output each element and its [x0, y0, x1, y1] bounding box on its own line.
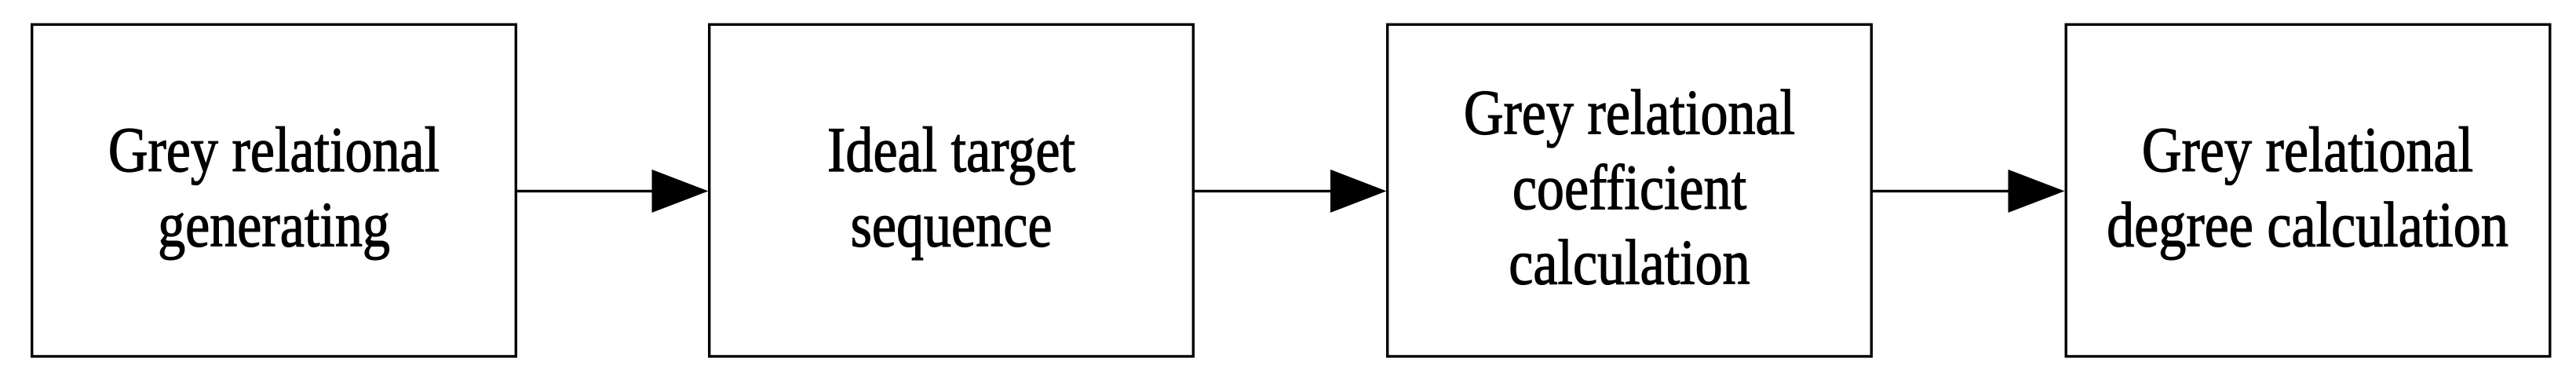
svg-text:calculation: calculation — [1509, 226, 1750, 298]
arrow 1: box1 to box2 — [516, 170, 709, 213]
box 2: Ideal target sequence — [710, 24, 1194, 356]
svg-text:degree calculation: degree calculation — [2107, 188, 2508, 260]
svg-text:Ideal target: Ideal target — [827, 114, 1075, 185]
svg-text:Grey relational: Grey relational — [2142, 114, 2473, 185]
svg-text:coefficient: coefficient — [1512, 152, 1746, 223]
box 3: Grey relational coefficient calculation — [1388, 24, 1872, 356]
arrow 3: box3 to box4 — [1872, 170, 2065, 213]
svg-text:sequence: sequence — [851, 188, 1053, 260]
svg-text:Grey relational: Grey relational — [108, 114, 440, 185]
svg-text:Grey relational: Grey relational — [1464, 76, 1795, 148]
box 4: Grey relational degree calculation — [2066, 24, 2550, 356]
svg-text:generating: generating — [158, 188, 390, 260]
box 1: Grey relational generating — [32, 24, 516, 356]
arrow 2: box2 to box3 — [1194, 170, 1387, 213]
